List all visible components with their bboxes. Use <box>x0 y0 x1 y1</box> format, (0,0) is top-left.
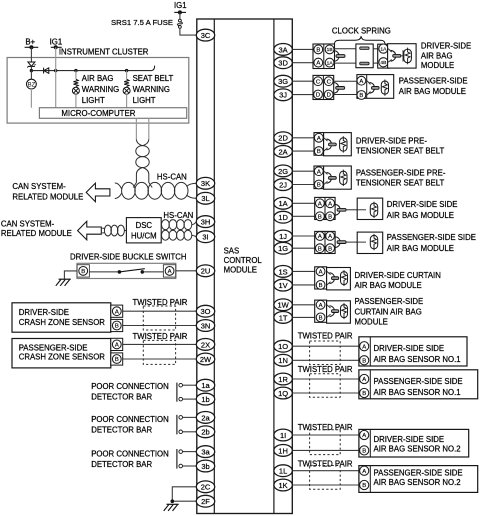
squib (driver pre-tensioner seat belt) <box>340 138 347 151</box>
svg-text:POOR CONNECTION: POOR CONNECTION <box>91 382 169 391</box>
svg-text:3K: 3K <box>201 179 210 188</box>
svg-text:3A: 3A <box>279 45 288 54</box>
wire to driver side air bag sensor no.1 A <box>293 345 359 347</box>
switch contact hook (cluster supply) <box>152 66 155 71</box>
svg-text:D: D <box>316 93 320 99</box>
squib (driver-side curtain air bag module) <box>341 272 348 285</box>
wire pin 3J to connector <box>293 94 313 96</box>
wire pin 3D to connector <box>293 62 313 64</box>
passenger side air bag sensor no.1 terminal B <box>360 388 369 397</box>
svg-text:DETECTOR BAR: DETECTOR BAR <box>91 425 152 434</box>
passenger-side side air bag module box <box>357 232 383 253</box>
wire to driver-side side air bag module B <box>293 215 315 217</box>
wire to driver pre-tensioner seat belt B <box>293 150 314 152</box>
svg-text:3I: 3I <box>202 233 208 242</box>
junction bus x IG1 line <box>54 69 57 72</box>
pin 3K <box>196 177 214 189</box>
svg-text:3L: 3L <box>201 194 209 203</box>
svg-text:D: D <box>327 93 331 99</box>
passenger-side side air bag module connector block <box>315 231 335 253</box>
pin 2U <box>196 265 214 277</box>
pin 3a <box>196 446 214 458</box>
pin 2W <box>196 353 214 365</box>
SAS control module inner right wall <box>273 19 275 514</box>
squib (passenger pre-tensioner seat belt) <box>340 171 347 184</box>
wire IG1 to fuse <box>179 12 181 19</box>
passenger pre-tensioner seat belt box <box>324 166 352 189</box>
svg-text:B: B <box>319 283 323 289</box>
driver-side side air bag module internal leads <box>357 209 366 211</box>
svg-text:DSC: DSC <box>136 221 153 230</box>
svg-text:SRS1 7.5 A FUSE: SRS1 7.5 A FUSE <box>111 18 173 27</box>
svg-text:CONTROL: CONTROL <box>224 256 263 265</box>
svg-text:DETECTOR BAR: DETECTOR BAR <box>91 460 152 469</box>
squib (passenger-side curtain air bag module) <box>341 305 348 318</box>
passenger-side crash zone sensor box <box>12 339 111 368</box>
svg-text:B: B <box>362 449 366 455</box>
svg-text:AIR BAG MODULE: AIR BAG MODULE <box>387 211 454 220</box>
twisted pair feeds from cluster <box>133 183 152 188</box>
svg-text:DRIVER-SIDE PRE-: DRIVER-SIDE PRE- <box>356 137 427 146</box>
svg-text:3a: 3a <box>201 448 210 457</box>
svg-text:HU/CM: HU/CM <box>131 231 157 240</box>
wire pin 2C to ground <box>172 487 196 501</box>
svg-text:1O: 1O <box>278 342 288 351</box>
diode D2 <box>44 68 49 74</box>
svg-text:A: A <box>318 201 322 207</box>
svg-text:A: A <box>362 377 366 383</box>
svg-text:B: B <box>115 357 119 363</box>
wire to passenger side air bag sensor no.2 A <box>293 470 359 472</box>
pin 1V <box>274 279 292 291</box>
svg-text:A: A <box>318 234 322 240</box>
pin 1Q <box>274 387 292 399</box>
driver side air bag sensor no.1 box <box>359 337 467 366</box>
wire coils to DSC box <box>124 230 126 232</box>
svg-text:1Q: 1Q <box>278 389 288 398</box>
wire to driver-side side air bag module A <box>293 202 315 204</box>
svg-text:PASSENGER-SIDE: PASSENGER-SIDE <box>399 77 468 86</box>
driver pre-tensioner seat belt connector block <box>314 133 324 156</box>
wire to passenger side air bag sensor no.1 B <box>293 392 359 394</box>
wire micro-computer CAN-H down <box>135 118 137 140</box>
buckle switch terminal B square <box>77 265 89 277</box>
twisted pair dashed box (passenger side air bag sensor no.2) <box>310 466 341 490</box>
connector key (clock spring input) <box>334 51 339 62</box>
pin 1W <box>274 299 292 311</box>
pin 2D <box>274 132 292 144</box>
svg-text:PASSENGER-SIDE: PASSENGER-SIDE <box>19 344 88 353</box>
wire connector to clock spring (bottom) <box>335 62 356 64</box>
pin 1D <box>274 211 292 223</box>
module internal key <box>367 81 371 95</box>
driver-side side air bag module connector key <box>335 204 340 215</box>
svg-text:A: A <box>362 344 366 350</box>
driver-side curtain air bag module connector block <box>315 267 327 289</box>
pin 2A <box>274 146 292 158</box>
svg-text:3J: 3J <box>279 91 287 100</box>
driver side air bag sensor no.2 terminal B <box>360 446 369 455</box>
wire driver crash B to pin 3N <box>123 325 197 327</box>
svg-text:1I: 1I <box>280 431 286 440</box>
passenger side air bag sensor no.1 connector column divider <box>369 370 371 399</box>
svg-text:CLOCK SPRING: CLOCK SPRING <box>332 27 391 36</box>
HS-CAN twisted pair loops (cluster) <box>122 182 136 199</box>
svg-text:1K: 1K <box>279 481 288 490</box>
svg-text:SEAT BELT: SEAT BELT <box>133 74 174 83</box>
svg-text:B: B <box>115 324 119 330</box>
wire to driver side air bag sensor no.2 A <box>293 434 359 436</box>
svg-text:1G: 1G <box>278 244 288 253</box>
svg-text:PASSENGER-SIDE SIDE: PASSENGER-SIDE SIDE <box>387 233 476 242</box>
pin 1O <box>274 340 292 352</box>
svg-text:A: A <box>362 433 366 439</box>
svg-text:1H: 1H <box>278 446 288 455</box>
pin 3C <box>196 29 214 41</box>
svg-text:B: B <box>318 246 322 252</box>
passenger-side crash zone sensor terminal A <box>111 338 123 350</box>
wire clock spring to module connector (top) <box>373 48 378 50</box>
squib (passenger air bag) <box>381 81 388 94</box>
buzzer BZ <box>27 79 37 89</box>
svg-text:B: B <box>317 149 321 155</box>
driver side air bag sensor no.2 connector column divider <box>369 429 371 457</box>
wire detector to pin 1b <box>183 398 197 400</box>
clock spring brace <box>334 36 385 45</box>
svg-text:4B: 4B <box>380 60 386 66</box>
svg-text:AIR BAG: AIR BAG <box>421 51 453 60</box>
pin 1G <box>274 242 292 254</box>
svg-text:RELATED MODULE: RELATED MODULE <box>1 229 72 238</box>
wire to driver pre-tensioner seat belt A <box>293 137 314 139</box>
wire seat belt lamp branch <box>126 71 128 79</box>
svg-text:TENSIONER SEAT BELT: TENSIONER SEAT BELT <box>356 179 445 188</box>
driver-side crash zone sensor terminal A <box>111 305 123 317</box>
svg-text:3C: 3C <box>201 31 211 40</box>
svg-text:1A: 1A <box>327 60 334 66</box>
svg-text:1A: 1A <box>380 46 387 52</box>
connector key (passenger air bag) <box>334 82 339 93</box>
wire B+ down <box>30 47 32 62</box>
vertical twisted pair converge <box>136 140 148 146</box>
svg-text:A: A <box>328 201 332 207</box>
svg-text:MODULE: MODULE <box>355 318 388 327</box>
svg-text:3D: 3D <box>278 59 288 68</box>
svg-text:DRIVER-SIDE BUCKLE SWITCH: DRIVER-SIDE BUCKLE SWITCH <box>70 253 187 262</box>
pin 1a <box>196 379 214 391</box>
clock spring body <box>356 44 373 68</box>
wire to passenger-side curtain air bag module A <box>293 304 315 306</box>
svg-text:A: A <box>168 269 172 275</box>
svg-text:TWISTED PAIR: TWISTED PAIR <box>298 365 353 374</box>
svg-text:B: B <box>328 214 332 220</box>
svg-text:AIR BAG SENSOR NO.1: AIR BAG SENSOR NO.1 <box>374 355 461 364</box>
wire connector to module A <box>334 80 357 82</box>
svg-text:LIGHT: LIGHT <box>82 96 105 105</box>
pin 3H <box>196 216 214 228</box>
wire to driver side air bag sensor no.2 B <box>293 449 359 451</box>
switch contact right <box>141 270 145 274</box>
IG1 supply rail tick <box>174 11 186 13</box>
svg-text:POOR CONNECTION: POOR CONNECTION <box>91 415 169 424</box>
svg-text:WARNING: WARNING <box>82 85 119 94</box>
wire detector to pin 3b <box>183 465 197 467</box>
wire to driver side air bag sensor no.1 B <box>293 359 359 361</box>
driver side air bag sensor no.2 box <box>359 429 469 457</box>
micro-computer box <box>39 108 186 119</box>
wire BZ branch <box>30 71 32 80</box>
pin 3G <box>274 75 292 87</box>
passenger-side curtain air bag module box <box>327 301 351 323</box>
svg-text:AIR BAG SENSOR NO.2: AIR BAG SENSOR NO.2 <box>374 478 461 487</box>
passenger pre-tensioner seat belt internal leads <box>324 171 328 184</box>
DSC HU/CM box <box>126 218 161 243</box>
svg-text:RELATED MODULE: RELATED MODULE <box>12 193 83 202</box>
svg-text:1S: 1S <box>279 267 288 276</box>
svg-text:B+: B+ <box>25 38 35 47</box>
svg-text:PASSENGER-SIDE SIDE: PASSENGER-SIDE SIDE <box>374 377 463 386</box>
svg-text:MODULE: MODULE <box>421 61 454 70</box>
svg-text:TWISTED PAIR: TWISTED PAIR <box>298 423 353 432</box>
svg-text:DRIVER-SIDE: DRIVER-SIDE <box>19 308 69 317</box>
svg-text:IG1: IG1 <box>174 1 187 10</box>
wire passenger crash A to pin 2X <box>123 343 197 345</box>
wire detector to pin 2b <box>183 431 197 433</box>
driver-side crash zone sensor box <box>12 303 111 332</box>
pin 3I <box>196 231 214 243</box>
connector block (1A/4B) <box>378 44 389 68</box>
svg-text:BZ: BZ <box>28 82 36 88</box>
svg-text:A: A <box>362 469 366 475</box>
twisted pair dashed box (passenger side air bag sensor no.1) <box>310 374 341 397</box>
junction on IG1 rail <box>178 10 182 14</box>
pin 1I <box>274 429 292 441</box>
pin 2J <box>274 179 292 191</box>
ground (SAS module) <box>167 503 179 505</box>
vertical twisted pair loops <box>136 146 149 157</box>
wire to driver-side curtain air bag module A <box>293 270 315 272</box>
driver side air bag sensor no.2 terminal A <box>360 430 369 439</box>
svg-text:AIR BAG SENSOR NO.2: AIR BAG SENSOR NO.2 <box>374 445 461 454</box>
squib (driver-side side air bag module) <box>370 203 377 216</box>
svg-text:A: A <box>115 309 119 315</box>
pin 1b <box>196 393 214 405</box>
svg-text:2W: 2W <box>200 355 212 364</box>
passenger-side side air bag module internal leads <box>357 241 366 243</box>
wire key to passenger-side side air bag module box <box>346 241 357 243</box>
wire contact to A <box>142 271 163 273</box>
passenger side air bag sensor no.2 terminal B <box>360 480 369 489</box>
svg-text:A: A <box>317 136 321 142</box>
pin 3b <box>196 460 214 472</box>
ground (buckle switch) <box>59 278 71 280</box>
wire to passenger-side side air bag module B <box>293 247 315 249</box>
svg-text:B: B <box>316 48 320 54</box>
arrow to CAN system-related module 2 <box>78 221 102 240</box>
wire pin 2F to ground <box>172 500 196 502</box>
coil wire DSC to pin 3I <box>162 230 170 240</box>
svg-text:CRASH ZONE SENSOR: CRASH ZONE SENSOR <box>19 318 106 327</box>
switch contact left <box>118 270 122 274</box>
svg-text:PASSENGER-SIDE: PASSENGER-SIDE <box>355 297 424 306</box>
SAS control module inner left wall <box>213 19 215 514</box>
svg-text:LIGHT: LIGHT <box>133 96 156 105</box>
svg-text:B: B <box>319 316 323 322</box>
svg-text:DRIVER-SIDE SIDE: DRIVER-SIDE SIDE <box>374 435 445 444</box>
switch lever <box>119 269 144 272</box>
passenger side air bag sensor no.2 terminal A <box>360 466 369 475</box>
pin 1L <box>274 465 292 477</box>
svg-text:CAN SYSTEM-: CAN SYSTEM- <box>1 219 55 228</box>
svg-text:AIR BAG MODULE: AIR BAG MODULE <box>355 281 422 290</box>
wire to passenger side air bag sensor no.2 B <box>293 484 359 486</box>
svg-text:IG1: IG1 <box>50 37 63 46</box>
wire detector to pin 2a <box>183 416 197 418</box>
svg-text:DRIVER-SIDE SIDE: DRIVER-SIDE SIDE <box>387 200 458 209</box>
wire B to contact <box>89 271 119 273</box>
svg-text:A: A <box>115 343 119 349</box>
IG1 rail tick <box>51 46 62 48</box>
passenger side air bag sensor no.1 terminal A <box>360 374 369 383</box>
wire fuse to pin 3C <box>180 28 197 35</box>
svg-text:AIR BAG SENSOR NO.1: AIR BAG SENSOR NO.1 <box>374 388 461 397</box>
svg-text:1B: 1B <box>327 47 333 53</box>
svg-text:B: B <box>318 214 322 220</box>
driver-side curtain air bag module box <box>327 268 351 290</box>
passenger pre-tensioner seat belt connector block <box>314 166 324 189</box>
wire to passenger side air bag sensor no.1 A <box>293 378 359 380</box>
svg-text:TWISTED PAIR: TWISTED PAIR <box>298 332 353 341</box>
module internal leads <box>388 49 392 63</box>
wire BZ to micro-computer <box>30 89 32 108</box>
twisted pair dashed box (driver side air bag sensor no.1) <box>310 341 341 365</box>
svg-text:1N: 1N <box>278 356 288 365</box>
wire lamp2 to micro-computer <box>126 94 128 108</box>
svg-text:PASSENGER-SIDE SIDE: PASSENGER-SIDE SIDE <box>374 468 463 477</box>
svg-text:B: B <box>362 358 366 364</box>
junction seat belt lamp branch <box>125 69 128 72</box>
svg-text:A: A <box>319 270 323 276</box>
svg-text:B: B <box>328 246 332 252</box>
svg-text:2G: 2G <box>278 167 288 176</box>
svg-text:B: B <box>317 183 321 189</box>
driver-side curtain air bag module internal leads <box>327 271 331 285</box>
svg-text:DRIVER-SIDE: DRIVER-SIDE <box>421 42 471 51</box>
poor connection detector bar (3a/3b) <box>176 449 178 469</box>
svg-text:1R: 1R <box>278 375 288 384</box>
svg-text:WARNING: WARNING <box>133 85 170 94</box>
driver-side side air bag module connector block <box>315 197 335 219</box>
pin 3A <box>274 44 292 56</box>
svg-text:CAN SYSTEM-: CAN SYSTEM- <box>12 182 66 191</box>
coil wire DSC to pin 3H <box>162 220 170 230</box>
wire connector to module B <box>334 94 357 96</box>
passenger-side curtain air bag module connector block <box>315 300 327 322</box>
svg-text:3H: 3H <box>201 218 211 227</box>
pin 3J <box>274 89 292 101</box>
wire buckle B to ground <box>64 271 77 279</box>
seat belt warning light filament resistor <box>124 79 129 86</box>
driver pre-tensioner seat belt box <box>324 133 352 156</box>
driver-side air bag module box <box>388 44 417 68</box>
svg-text:3N: 3N <box>201 321 211 330</box>
fuse SRS1 7.5 A <box>177 19 182 28</box>
svg-text:AIR BAG MODULE: AIR BAG MODULE <box>387 244 454 253</box>
svg-text:3O: 3O <box>200 307 210 316</box>
svg-text:B: B <box>81 269 85 275</box>
passenger-side crash zone sensor terminal B <box>111 353 123 365</box>
vertical twisted pair diverge <box>136 167 148 182</box>
svg-text:SAS: SAS <box>224 247 240 256</box>
poor connection detector bar (2a/2b) <box>176 415 178 435</box>
passenger side air bag sensor no.2 connector column divider <box>369 466 371 493</box>
wire to passenger-side side air bag module A <box>293 235 315 237</box>
pin 1H <box>274 445 292 457</box>
pin 3L <box>196 192 214 204</box>
arrow to CAN system-related module <box>86 183 110 202</box>
svg-text:DRIVER-SIDE CURTAIN: DRIVER-SIDE CURTAIN <box>355 271 441 280</box>
wire to passenger pre-tensioner seat belt B <box>293 184 314 186</box>
svg-text:PASSENGER-SIDE PRE-: PASSENGER-SIDE PRE- <box>356 169 446 178</box>
pin 3D <box>274 57 292 69</box>
svg-text:CRASH ZONE SENSOR: CRASH ZONE SENSOR <box>19 353 106 362</box>
squib (passenger-side side air bag module) <box>370 235 377 248</box>
svg-text:C: C <box>316 79 321 85</box>
B+ rail tick <box>25 46 39 48</box>
svg-text:C: C <box>327 79 332 85</box>
wire pin 3G to connector <box>293 80 313 82</box>
twisted pair coils left of DSC <box>104 225 111 236</box>
pin 1N <box>274 354 292 366</box>
pin 2G <box>274 165 292 177</box>
svg-text:POOR CONNECTION: POOR CONNECTION <box>91 449 169 458</box>
wire passenger crash B to pin 2W <box>123 358 197 360</box>
pin 2X <box>196 339 214 351</box>
junction node bus left <box>30 69 33 72</box>
wire to passenger pre-tensioner seat belt A <box>293 170 314 172</box>
junction on IG1 rail <box>54 45 58 49</box>
poor connection detector bar (1a/1b) <box>176 383 178 402</box>
SAS control module U1 outline <box>197 19 292 514</box>
twisted pair dashed box (driver side air bag sensor no.2) <box>310 430 341 455</box>
passenger-side curtain air bag module internal leads <box>327 305 331 318</box>
svg-text:CURTAIN AIR BAG: CURTAIN AIR BAG <box>355 307 422 316</box>
instrument cluster box <box>7 58 189 124</box>
svg-text:HS-CAN: HS-CAN <box>157 173 187 182</box>
svg-text:INSTRUMENT CLUSTER: INSTRUMENT CLUSTER <box>59 47 149 56</box>
wire buckle A to pin 2U <box>176 270 197 272</box>
svg-text:MODULE: MODULE <box>224 266 257 275</box>
svg-text:2U: 2U <box>201 267 211 276</box>
wire micro-computer CAN-L down <box>148 118 150 140</box>
svg-text:2a: 2a <box>201 413 210 422</box>
junction at ground <box>171 499 175 503</box>
passenger air bag module box <box>357 75 394 99</box>
svg-text:1T: 1T <box>279 313 288 322</box>
pin 1R <box>274 373 292 385</box>
twisted pair dashed box (driver crash) <box>143 306 175 330</box>
svg-text:1D: 1D <box>278 213 288 222</box>
svg-text:1W: 1W <box>277 301 289 310</box>
svg-text:2X: 2X <box>201 340 210 349</box>
wire to driver-side curtain air bag module B <box>293 284 315 286</box>
passenger side air bag sensor no.1 box <box>359 370 478 399</box>
wire detector to pin 3a <box>183 451 197 453</box>
svg-text:2b: 2b <box>201 428 209 437</box>
wire clock spring to module connector (bottom) <box>373 62 378 64</box>
driver side air bag sensor no.1 terminal A <box>360 342 369 351</box>
svg-text:B: B <box>359 93 363 99</box>
